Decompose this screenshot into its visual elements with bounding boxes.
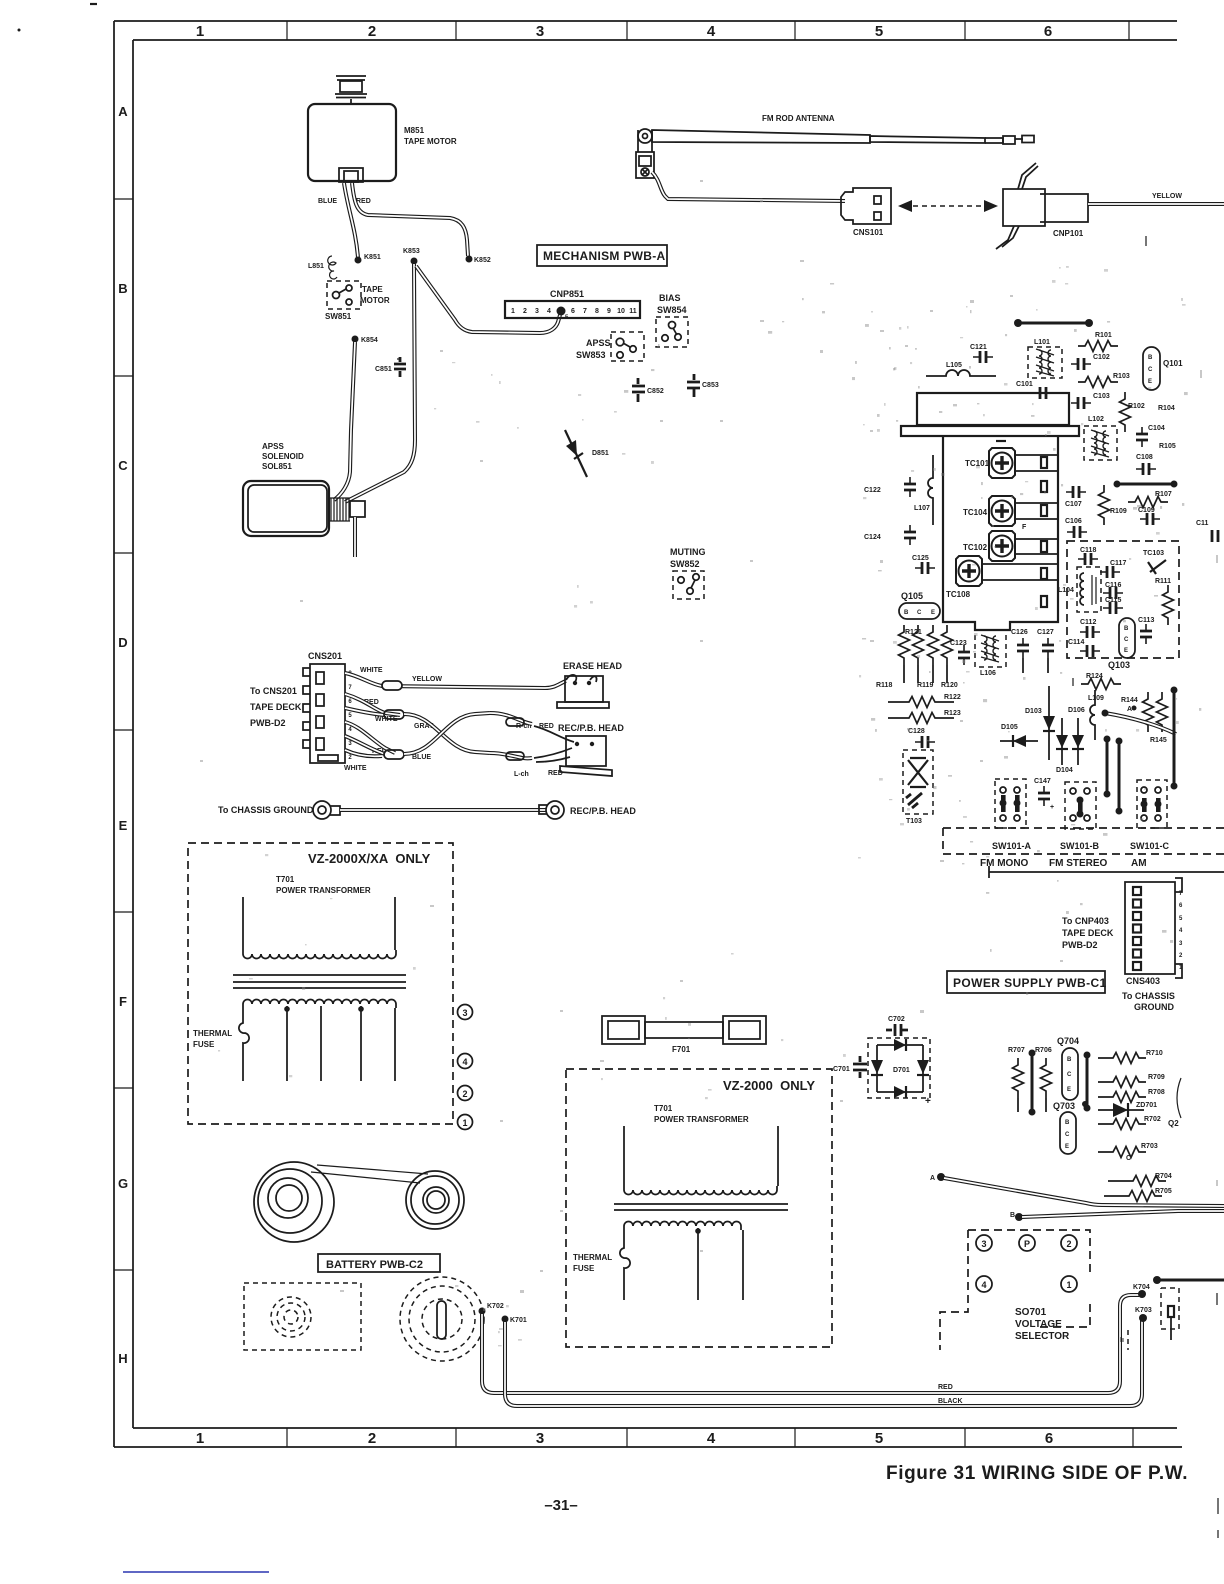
tick mark: [996, 440, 1006, 442]
svg-text:7: 7: [583, 308, 587, 315]
resistor R122: [888, 701, 902, 703]
dashed arrow between connectors: [904, 205, 992, 207]
svg-text:R144: R144: [1121, 697, 1138, 704]
svg-text:R703: R703: [1141, 1143, 1158, 1150]
svg-text:Iı: Iı: [1120, 1337, 1124, 1344]
column numbers bottom: [196, 1430, 1053, 1447]
stray mark top left: [90, 3, 97, 5]
svg-text:1: 1: [196, 23, 204, 40]
svg-text:E: E: [1124, 648, 1128, 654]
switch SW851 contacts: [333, 285, 353, 305]
svg-text:L-ch: L-ch: [514, 771, 529, 778]
wire B to right: [1022, 1211, 1224, 1217]
svg-text:FM STEREO: FM STEREO: [1049, 858, 1108, 869]
antenna rod telescoping: [652, 130, 1034, 144]
node pin5 blob: [557, 307, 566, 316]
svg-text:R122: R122: [944, 694, 961, 701]
rec pb head symbol: [534, 726, 612, 776]
motor pulley cap: [335, 76, 367, 104]
column ticks bottom: [287, 1428, 1133, 1447]
column ticks top: [287, 21, 1129, 40]
svg-text:B: B: [1067, 1057, 1072, 1063]
red wire K702 to K704: [482, 1295, 1139, 1393]
svg-text:D106: D106: [1068, 707, 1085, 714]
svg-text:L851: L851: [308, 263, 324, 270]
svg-text:R707: R707: [1008, 1047, 1025, 1054]
transistor Q102: [1119, 618, 1135, 658]
dashed box VZ-2000X/XA ONLY: [188, 843, 453, 1124]
svg-text:R710: R710: [1146, 1050, 1163, 1057]
diode D851: [565, 430, 587, 477]
svg-text:C852: C852: [647, 388, 664, 395]
circled pin 2: [458, 1086, 473, 1101]
svg-text:Q704: Q704: [1057, 1036, 1079, 1046]
svg-text:BLUE: BLUE: [318, 198, 337, 205]
wire blue motor to K851: [344, 183, 358, 258]
bracket line: [989, 866, 1224, 878]
thermal fuse: [239, 1008, 249, 1081]
wire bar 2: [1086, 1055, 1089, 1108]
svg-text:6: 6: [1045, 1430, 1053, 1447]
svg-text:1: 1: [196, 1430, 204, 1447]
circled pin 3: [458, 1005, 473, 1020]
circled pin 1: [458, 1115, 473, 1130]
svg-text:AM: AM: [1131, 858, 1147, 869]
battery cell right dashed circles: [400, 1277, 484, 1361]
wire jumper top: [1018, 322, 1089, 325]
svg-text:C851: C851: [375, 366, 392, 373]
wire red motor to K852: [352, 183, 468, 256]
svg-text:R706: R706: [1035, 1047, 1052, 1054]
right edge marks: [1146, 236, 1218, 1538]
svg-text:P: P: [1024, 1239, 1030, 1249]
svg-text:YELLOW: YELLOW: [412, 676, 442, 683]
svg-text:C122: C122: [864, 487, 881, 494]
svg-text:8: 8: [595, 308, 599, 315]
svg-text:FM MONO: FM MONO: [980, 858, 1029, 869]
svg-text:B: B: [904, 610, 909, 616]
transformer secondary vz2000: [624, 1222, 741, 1231]
svg-text:TC103: TC103: [1143, 550, 1164, 557]
svg-text:K851: K851: [364, 254, 381, 261]
switch SW851 dashed box: [327, 281, 361, 309]
row letters: [118, 104, 128, 1366]
svg-text:BLUE: BLUE: [412, 754, 431, 761]
svg-text:VZ-2000X/XA ONLY: VZ-2000X/XA ONLY: [308, 851, 431, 866]
node K854: [352, 336, 359, 343]
svg-text:B: B: [1148, 355, 1153, 361]
svg-text:TAPE MOTOR: TAPE MOTOR: [404, 137, 457, 146]
svg-text:ERASE HEAD: ERASE HEAD: [563, 661, 623, 671]
svg-text:B: B: [1124, 626, 1129, 632]
belt: [311, 1165, 428, 1183]
svg-text:C115: C115: [1105, 597, 1121, 604]
circled 3: [976, 1235, 992, 1251]
svg-text:2: 2: [462, 1089, 467, 1099]
connector CNS101: [841, 188, 891, 224]
svg-text:A: A: [118, 104, 128, 119]
noise speckles: [200, 180, 1218, 1293]
svg-text:To CNP403: To CNP403: [1062, 916, 1109, 926]
svg-text:R105: R105: [1159, 443, 1176, 450]
node B: [1015, 1213, 1023, 1221]
transformer core vz2000: [614, 1204, 788, 1210]
svg-text:C: C: [118, 458, 128, 473]
svg-text:VZ-2000 ONLY: VZ-2000 ONLY: [723, 1078, 815, 1093]
border inner line: [133, 40, 1177, 1428]
svg-text:R702: R702: [1144, 1116, 1161, 1123]
svg-text:C113: C113: [1138, 617, 1154, 624]
dashed outline right: [1161, 1288, 1179, 1329]
svg-text:K854: K854: [361, 337, 378, 344]
svg-text:T701: T701: [276, 875, 295, 884]
svg-text:T701: T701: [654, 1104, 673, 1113]
circled 1: [1061, 1276, 1077, 1292]
black wire K701 to K703: [505, 1320, 1142, 1406]
svg-text:C124: C124: [864, 534, 881, 541]
svg-text:C104: C104: [1148, 425, 1165, 432]
wire A to right: [944, 1178, 1224, 1206]
svg-text:C102: C102: [1093, 354, 1110, 361]
svg-text:TAPE DECK: TAPE DECK: [1062, 928, 1114, 938]
switch SW101-B contacts: [1065, 782, 1096, 829]
bridge rectifier D701: [877, 1045, 923, 1092]
svg-text:CNP851: CNP851: [550, 289, 584, 299]
svg-text:L101: L101: [1034, 339, 1050, 346]
svg-text:C116: C116: [1105, 582, 1121, 589]
label box POWER SUPPLY PWB-C1: [947, 971, 1105, 993]
antenna pivot: [638, 129, 652, 152]
svg-text:B: B: [1010, 1212, 1015, 1219]
svg-text:E: E: [1065, 1144, 1069, 1150]
big pulley spiral: [254, 1162, 334, 1242]
wire right top: [1158, 1279, 1224, 1282]
svg-text:R704: R704: [1155, 1173, 1172, 1180]
resistor R120: [942, 625, 953, 665]
label box MECHANISM PWB-A: [537, 245, 667, 266]
connector CNS403: [1125, 878, 1182, 978]
pin numbers: [348, 671, 352, 761]
svg-text:3: 3: [536, 1430, 544, 1447]
battery slot: [437, 1301, 446, 1339]
slot bottom: [1041, 596, 1047, 607]
svg-text:R145: R145: [1150, 737, 1167, 744]
svg-text:K852: K852: [474, 257, 491, 264]
dashed box VZ-2000 ONLY: [566, 1069, 832, 1347]
svg-text:RED: RED: [356, 198, 371, 205]
wire sweep right: [1105, 713, 1176, 734]
svg-text:R119: R119: [917, 682, 933, 689]
svg-text:C702: C702: [888, 1016, 905, 1023]
resistor R702: [1098, 1123, 1106, 1125]
svg-text:ZD701: ZD701: [1136, 1102, 1157, 1109]
svg-text:To CHASSIS: To CHASSIS: [1122, 991, 1175, 1001]
dashed box Q103: [1067, 541, 1179, 658]
label box BATTERY PWB-C2: [318, 1254, 440, 1272]
svg-text:F: F: [119, 994, 127, 1009]
svg-text:4: 4: [462, 1057, 467, 1067]
trimmer TC108: [956, 556, 982, 586]
wire vertical mid1: [1106, 739, 1109, 794]
svg-text:6: 6: [571, 308, 575, 315]
solenoid body: [243, 481, 329, 536]
resistor R703: [1098, 1151, 1106, 1153]
switch SW101-C contacts: [1137, 780, 1167, 828]
svg-text:Figure 31 WIRING SIDE OF P.W.: Figure 31 WIRING SIDE OF P.W.: [886, 1463, 1188, 1484]
resistor R708: [1098, 1096, 1106, 1098]
circled P: [1019, 1235, 1035, 1251]
resistor R109 vertical: [1099, 485, 1110, 525]
svg-text:1: 1: [462, 1118, 467, 1128]
yellow wire from CNP101: [1088, 202, 1224, 206]
wire K854 down to solenoid: [334, 342, 355, 500]
svg-text:1: 1: [511, 308, 515, 315]
wire jumper mid: [1117, 483, 1174, 486]
ferrule blue: [384, 750, 404, 759]
svg-text:A: A: [930, 1175, 935, 1182]
svg-text:SW101-B: SW101-B: [1060, 841, 1100, 851]
resistor R709: [1098, 1081, 1106, 1083]
svg-text:C147: C147: [1034, 778, 1051, 785]
resistor R705: [1104, 1195, 1122, 1197]
svg-text:D104: D104: [1056, 767, 1073, 774]
svg-text:THERMAL: THERMAL: [573, 1253, 612, 1262]
ring terminal left: [313, 801, 340, 819]
svg-text:R103: R103: [1113, 373, 1130, 380]
svg-text:K853: K853: [403, 248, 420, 255]
svg-text:CNS101: CNS101: [853, 228, 884, 237]
svg-text:L109: L109: [1088, 695, 1104, 702]
svg-text:B: B: [118, 281, 127, 296]
svg-text:B: B: [1065, 1120, 1070, 1126]
svg-text:E: E: [931, 610, 935, 616]
svg-text:BATTERY PWB-C2: BATTERY PWB-C2: [326, 1259, 423, 1271]
resistor R704: [1108, 1180, 1126, 1182]
dashes below K wires: [1127, 1330, 1129, 1350]
svg-text:SW854: SW854: [657, 305, 687, 315]
circled 2: [1061, 1235, 1077, 1251]
svg-text:R111: R111: [1155, 578, 1171, 585]
svg-text:4: 4: [981, 1280, 986, 1290]
svg-text:Q703: Q703: [1053, 1101, 1075, 1111]
svg-text:SO701: SO701: [1015, 1307, 1047, 1318]
svg-text:C109: C109: [1138, 507, 1155, 514]
svg-text:SW853: SW853: [576, 350, 606, 360]
svg-text:CNS201: CNS201: [308, 651, 342, 661]
svg-text:–31–: –31–: [544, 1497, 577, 1514]
battery cell left dashed circles: [271, 1297, 311, 1337]
svg-text:TC108: TC108: [946, 590, 971, 599]
svg-text:F: F: [1022, 524, 1027, 531]
svg-text:APSS: APSS: [586, 338, 611, 348]
transformer T701 vz2000: [624, 1126, 778, 1195]
svg-text:F701: F701: [672, 1045, 691, 1054]
svg-text:2: 2: [368, 23, 376, 40]
ferrule rch: [506, 718, 524, 726]
resistor R118: [913, 625, 924, 665]
svg-text:SOLENOID: SOLENOID: [262, 452, 304, 461]
node K852: [466, 256, 473, 263]
svg-text:VOLTAGE: VOLTAGE: [1015, 1319, 1062, 1330]
switch body dashed band: [943, 828, 1224, 854]
svg-text:L106: L106: [980, 670, 996, 677]
svg-text:To CNS201: To CNS201: [250, 686, 297, 696]
svg-text:D105: D105: [1001, 724, 1018, 731]
svg-text:CNS403: CNS403: [1126, 976, 1160, 986]
svg-text:APSS: APSS: [262, 442, 284, 451]
ring terminal right: [539, 801, 564, 819]
svg-text:TAPE DECK: TAPE DECK: [250, 702, 302, 712]
capacitor C852: [632, 378, 645, 402]
svg-text:POWER SUPPLY PWB-C1: POWER SUPPLY PWB-C1: [953, 976, 1107, 990]
svg-text:K704: K704: [1133, 1284, 1150, 1291]
slot 2: [1041, 481, 1047, 492]
motor terminal tab: [339, 168, 363, 182]
svg-text:C853: C853: [702, 382, 719, 389]
svg-text:C: C: [1126, 1155, 1131, 1162]
column numbers top: [196, 23, 1052, 40]
svg-text:C121: C121: [970, 344, 987, 351]
transformer secondary: [243, 1000, 396, 1009]
scan noise: [218, 266, 1186, 1346]
svg-text:M851: M851: [404, 126, 425, 135]
svg-text:Q103: Q103: [1108, 660, 1130, 670]
svg-text:C107: C107: [1065, 501, 1082, 508]
svg-text:POWER TRANSFORMER: POWER TRANSFORMER: [276, 886, 371, 895]
row ticks left: [114, 199, 133, 1270]
wire K853 down to solenoid: [345, 264, 415, 502]
ferrule lch: [506, 752, 524, 760]
resistor R710: [1098, 1057, 1106, 1059]
svg-text:2: 2: [368, 1430, 376, 1447]
svg-text:C127: C127: [1037, 629, 1054, 636]
svg-text:C: C: [1124, 637, 1129, 643]
svg-text:D701: D701: [893, 1067, 910, 1074]
blue underline mark: [123, 1571, 269, 1573]
svg-text:C118: C118: [1080, 547, 1096, 554]
antenna mount bracket: [636, 152, 654, 178]
small pulley: [406, 1171, 464, 1229]
ferrule yellow: [382, 681, 402, 690]
svg-text:C117: C117: [1110, 560, 1126, 567]
svg-text:R708: R708: [1148, 1089, 1165, 1096]
secondary taps: [287, 1006, 395, 1081]
svg-text:To CHASSIS GROUND: To CHASSIS GROUND: [218, 805, 314, 815]
svg-text:REC/P.B. HEAD: REC/P.B. HEAD: [570, 806, 636, 816]
svg-text:2: 2: [1066, 1239, 1071, 1249]
transformer core: [233, 975, 406, 988]
dashed box D701: [868, 1038, 930, 1098]
IF can flange: [901, 426, 1079, 436]
svg-text:D103: D103: [1025, 708, 1042, 715]
brace: [1177, 1078, 1181, 1118]
svg-text:4: 4: [547, 308, 551, 315]
svg-text:C: C: [1148, 367, 1153, 373]
svg-text:E: E: [1148, 379, 1152, 385]
coil L107: [928, 455, 933, 525]
twisted pair wires: [404, 714, 490, 753]
diode D104: [1077, 718, 1079, 765]
svg-text:CNP101: CNP101: [1053, 229, 1084, 238]
IF can body: [943, 436, 1058, 630]
wire bar 1: [1031, 1053, 1034, 1112]
svg-text:C114: C114: [1068, 639, 1084, 646]
transformer T701 primary: [243, 897, 396, 959]
svg-text:Q105: Q105: [901, 591, 923, 601]
solenoid coil hatch: [329, 498, 350, 521]
svg-text:MUTING: MUTING: [670, 547, 706, 557]
svg-text:C125: C125: [912, 555, 929, 562]
svg-text:9: 9: [607, 308, 611, 315]
svg-text:SW101-C: SW101-C: [1130, 841, 1170, 851]
svg-text:Q101: Q101: [1163, 359, 1183, 368]
svg-text:C11: C11: [1196, 520, 1209, 527]
svg-text:L102: L102: [1088, 416, 1104, 423]
svg-text:C701: C701: [833, 1066, 850, 1073]
resistor R123: [888, 717, 902, 719]
svg-text:H: H: [118, 1351, 127, 1366]
svg-text:POWER TRANSFORMER: POWER TRANSFORMER: [654, 1115, 749, 1124]
circled 4: [976, 1276, 992, 1292]
coil L106 dashed box: [975, 630, 1006, 667]
svg-text:10: 10: [617, 308, 625, 315]
svg-text:4: 4: [707, 23, 716, 40]
dashed box SO701: [940, 1230, 1090, 1350]
svg-text:Q2: Q2: [1168, 1119, 1179, 1128]
svg-text:TC104: TC104: [963, 508, 988, 517]
svg-text:BIAS: BIAS: [659, 293, 681, 303]
connector CNS201 body: [303, 664, 345, 763]
solenoid plunger: [350, 501, 365, 517]
svg-text:THERMAL: THERMAL: [193, 1029, 232, 1038]
svg-text:FUSE: FUSE: [573, 1264, 595, 1273]
node K853: [411, 258, 418, 265]
svg-text:R101: R101: [1095, 332, 1112, 339]
svg-text:+: +: [1050, 804, 1054, 811]
svg-text:C103: C103: [1093, 393, 1110, 400]
svg-text:1: 1: [1066, 1280, 1071, 1290]
battery outline dashed: [244, 1283, 361, 1350]
svg-text:WHITE: WHITE: [360, 667, 383, 674]
svg-text:+: +: [925, 1096, 931, 1107]
svg-text:PWB-D2: PWB-D2: [250, 718, 286, 728]
svg-text:R709: R709: [1148, 1074, 1165, 1081]
svg-text:3: 3: [981, 1239, 986, 1249]
node K704: [1138, 1290, 1146, 1298]
capacitor C853: [687, 374, 700, 397]
svg-text:RED: RED: [938, 1384, 953, 1391]
svg-text:R109: R109: [1110, 508, 1127, 515]
svg-text:MECHANISM PWB-A: MECHANISM PWB-A: [543, 249, 666, 263]
svg-text:D851: D851: [592, 450, 609, 457]
svg-text:WHITE: WHITE: [344, 765, 367, 772]
svg-text:3: 3: [462, 1008, 467, 1018]
svg-text:C126: C126: [1011, 629, 1028, 636]
svg-text:TAPE: TAPE: [362, 285, 383, 294]
wire vertical mid2: [1118, 741, 1121, 811]
svg-text:R104: R104: [1158, 405, 1175, 412]
border outer line: [114, 21, 1182, 1447]
svg-text:T103: T103: [906, 818, 922, 825]
node K703: [1139, 1314, 1147, 1322]
svg-text:GROUND: GROUND: [1134, 1002, 1174, 1012]
svg-text:C: C: [1067, 1072, 1072, 1078]
node K851: [355, 257, 362, 264]
svg-text:SW852: SW852: [670, 559, 700, 569]
zener ZD701: [1098, 1109, 1144, 1111]
svg-text:SOL851: SOL851: [262, 462, 292, 471]
svg-text:3: 3: [536, 23, 544, 40]
